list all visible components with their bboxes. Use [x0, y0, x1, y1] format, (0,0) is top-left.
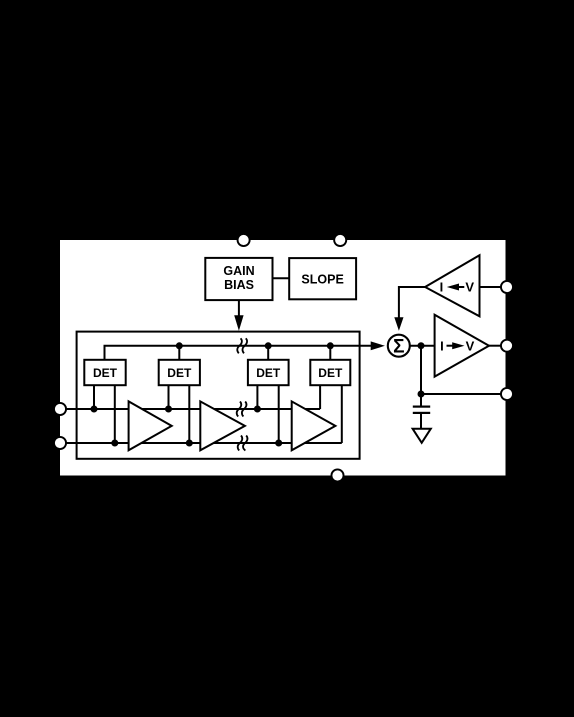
detector DET3 — [248, 360, 289, 385]
wire: U2 tip to summer, with arrow — [399, 287, 425, 319]
wire: U2 output to pin — [480, 286, 504, 288]
node: DET4 rail junction — [327, 342, 334, 349]
pin 2 (top right) — [334, 234, 346, 246]
pin 6 (bottom) — [331, 469, 343, 481]
pin 3 (right top) — [501, 281, 513, 293]
svg-text:GAIN: GAIN — [223, 264, 254, 278]
svg-text:V: V — [465, 279, 474, 294]
wire: capacitor to ground — [420, 414, 422, 429]
summer circle — [388, 335, 410, 357]
detector DET1 — [84, 360, 125, 385]
node: DET2-INM junction — [186, 440, 193, 447]
GAIN BIAS box — [205, 258, 272, 300]
amplifier stage block (outer box) — [77, 332, 360, 459]
svg-text:BIAS: BIAS — [224, 278, 254, 292]
node: DET3-INM junction — [275, 440, 282, 447]
pin 5 (right bottom) — [501, 388, 513, 400]
wire: DET3 left pin — [256, 385, 258, 409]
wire: junction to right pin — [421, 393, 503, 395]
node: DET3 rail junction — [265, 342, 272, 349]
wire: bottom input line (INM) — [60, 442, 342, 444]
wire+arrow: gain bias to amplifier block — [238, 300, 240, 317]
arrowhead into summer — [371, 341, 385, 350]
svg-text:DET: DET — [318, 366, 343, 380]
wire: DET4 right pin — [341, 385, 343, 443]
wire: U3 output to pin — [489, 345, 503, 347]
pin 8 (left bottom, INM) — [54, 437, 66, 449]
amplifier A1 — [129, 401, 172, 450]
wire: DET1 left pin — [93, 385, 95, 409]
svg-text:DET: DET — [167, 366, 192, 380]
wire: DET3 top pin — [267, 346, 269, 360]
wire: DET1 right pin — [114, 385, 116, 443]
wire: DET2 right pin — [188, 385, 190, 443]
node: DET1-INP junction — [91, 406, 98, 413]
break marks on top input line — [237, 402, 247, 417]
svg-text:I: I — [440, 338, 444, 353]
SLOPE box — [289, 258, 356, 299]
svg-text:DET: DET — [93, 366, 118, 380]
IC package body — [60, 240, 506, 476]
amplifier A2 — [200, 401, 245, 450]
wire: detector bias rail — [105, 346, 373, 360]
node: summer output junction — [418, 342, 425, 349]
pin 1 (top left) — [238, 234, 250, 246]
svg-text:DET: DET — [256, 366, 281, 380]
node: DET3-INP junction — [254, 406, 261, 413]
pin 4 (right middle) — [501, 340, 513, 352]
wire: junction down to capacitor — [420, 346, 422, 406]
buffer amp U2 (V to I, points left) — [425, 255, 479, 316]
detector DET2 — [159, 360, 200, 385]
output amp U3 (I to V, points right) — [435, 315, 489, 377]
pin 7 (left top, INP) — [54, 403, 66, 415]
svg-text:I: I — [440, 279, 444, 294]
svg-text:SLOPE: SLOPE — [301, 273, 343, 287]
wire: DET2 left pin — [168, 385, 170, 409]
node: capacitor junction — [418, 391, 425, 398]
wire: DET4 top pin — [329, 346, 331, 360]
wire: DET4 left pin — [319, 385, 321, 409]
wire: summer output to I-V — [410, 345, 435, 347]
ground — [413, 429, 431, 443]
svg-text:Σ: Σ — [393, 337, 404, 358]
break marks on bottom input line — [238, 436, 248, 451]
svg-text:V: V — [466, 338, 475, 353]
wire: DET3 right pin — [278, 385, 280, 443]
amplifier A3 — [292, 401, 336, 450]
break marks on bias rail — [237, 338, 247, 353]
node: DET2-INP junction — [165, 406, 172, 413]
wire: DET2 top pin — [178, 346, 180, 360]
wire: top input line (INP) — [60, 408, 320, 410]
wire: gain bias to slope — [273, 277, 290, 279]
detector DET4 — [310, 360, 350, 385]
node: DET2 rail junction — [176, 342, 183, 349]
capacitor C1 plates — [413, 406, 430, 408]
node: DET1-INM junction — [111, 440, 118, 447]
